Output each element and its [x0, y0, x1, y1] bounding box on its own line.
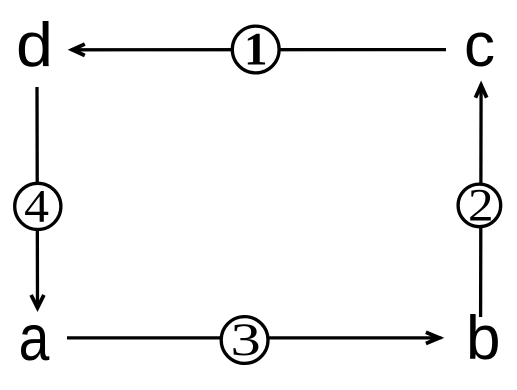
node b — [466, 304, 500, 373]
arrowhead at c (points up) — [474, 81, 489, 99]
svg-text:2: 2 — [468, 180, 494, 232]
wire a to b (bottom) — [67, 336, 442, 339]
arrowhead at d (points left) — [68, 42, 86, 57]
svg-text:c: c — [464, 11, 495, 80]
svg-text:3: 3 — [231, 314, 261, 366]
label 4 (circled) — [15, 181, 61, 233]
svg-text:a: a — [19, 301, 50, 374]
svg-text:d: d — [16, 11, 53, 80]
wire d to a (left) — [35, 87, 39, 307]
label 2 (circled) — [458, 180, 501, 232]
arrowhead at b (points right) — [425, 331, 444, 346]
svg-text:1: 1 — [244, 24, 268, 76]
node a — [19, 301, 50, 374]
label 1 (circled) — [232, 24, 279, 76]
svg-text:b: b — [466, 304, 500, 373]
wire b to c (right) — [479, 84, 483, 317]
node c — [464, 11, 495, 80]
svg-text:4: 4 — [24, 181, 49, 233]
arrowhead at a (points down) — [29, 294, 45, 312]
label 3 (circled) — [221, 314, 268, 366]
node d — [16, 11, 53, 80]
wire c to d (top) — [71, 48, 446, 52]
